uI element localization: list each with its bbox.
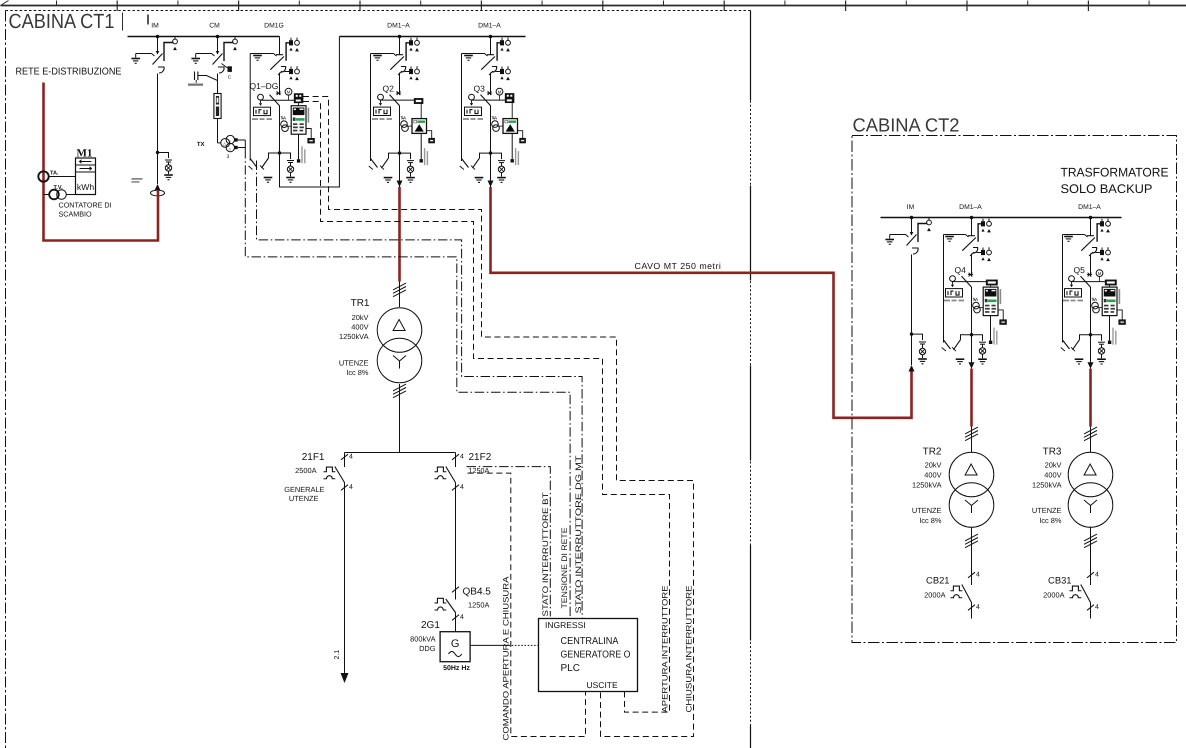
svg-text:CB31: CB31	[1048, 575, 1071, 586]
earthing rail DM1G	[249, 54, 251, 161]
circuit breaker Q4	[944, 265, 1006, 345]
motor operator Q1&#8211;DG	[285, 88, 292, 95]
control unit box CENTRALINA	[539, 619, 638, 692]
lower earthing switches Q1-DG	[260, 151, 295, 182]
svg-text:TA: TA	[492, 116, 498, 121]
svg-text:2000A: 2000A	[924, 591, 945, 600]
CT ring TA	[38, 171, 75, 182]
aux contact boxes Q3	[505, 94, 514, 98]
earthing rail DM1-A Q4	[943, 235, 945, 343]
fuse CM	[214, 94, 221, 119]
toroid wire Q3	[511, 133, 513, 159]
labels TR3	[1032, 447, 1062, 526]
transformer TR1	[377, 308, 422, 383]
bay label IM CT2	[907, 204, 915, 211]
svg-text:CABINA CT1: CABINA CT1	[9, 10, 115, 33]
svg-text:Q3: Q3	[474, 84, 486, 94]
labels CB31	[1043, 575, 1071, 600]
svg-text:4: 4	[1095, 604, 1099, 611]
svg-text:RETE E-DISTRIBUZIONE: RETE E-DISTRIBUZIONE	[16, 67, 122, 78]
svg-text:UTENZE: UTENZE	[339, 359, 369, 368]
LV breaker 21F1	[324, 454, 354, 492]
wire IM drop	[157, 74, 159, 153]
svg-text:M: M	[498, 90, 502, 95]
svg-text:CB21: CB21	[926, 575, 949, 586]
earthing blade DM1G rail	[249, 159, 258, 170]
lower earthing switches Q5	[1071, 333, 1106, 364]
disconnector DM1-A Q3	[462, 37, 511, 162]
earthing rail DM1-A Q2	[370, 54, 372, 162]
toroid wire Q1&#8211;DG	[298, 134, 300, 159]
svg-text:1250kVA: 1250kVA	[912, 481, 942, 490]
arrow Q5 output	[1088, 335, 1094, 369]
svg-text:△: △	[229, 139, 232, 143]
svg-text:1250kVA: 1250kVA	[339, 332, 369, 341]
cable termination IM	[132, 153, 165, 196]
arrow Q3 output	[488, 153, 494, 187]
aux contact boxes Q4	[986, 280, 997, 285]
signal TENSIONE DI RETE	[245, 149, 570, 618]
svg-text:2.1: 2.1	[334, 650, 341, 660]
operating coil Q4	[950, 276, 956, 282]
CT sensor Q4	[973, 302, 980, 309]
svg-text:STATO INTERRUTTORE DG MT: STATO INTERRUTTORE DG MT	[574, 455, 583, 613]
wire CB31 end	[1090, 611, 1092, 619]
svg-text:3: 3	[227, 154, 230, 160]
earthing rail DM1-A Q3	[461, 54, 463, 162]
operating coil Q5	[1069, 276, 1075, 282]
svg-text:PLC: PLC	[561, 663, 580, 674]
bay label DM1-A Q5	[1078, 204, 1101, 211]
toroid wire Q5	[1109, 316, 1111, 341]
toroid box Q5	[1117, 310, 1122, 320]
bay label DM1G	[264, 23, 284, 30]
svg-text:CM: CM	[209, 23, 220, 30]
svg-text:GENERATORE O: GENERATORE O	[561, 650, 631, 661]
wire DM1G drop	[279, 76, 281, 96]
svg-text:Icc 8%: Icc 8%	[1039, 516, 1062, 525]
lamp and earth IM CT2	[912, 334, 927, 364]
toroid box Q1&#8211;DG	[306, 129, 311, 139]
breaker blade Q4	[962, 276, 972, 287]
label CAVO MT 250 metri	[635, 261, 722, 271]
svg-text:Icc 8%: Icc 8%	[919, 516, 942, 525]
svg-text:IM: IM	[907, 204, 915, 211]
svg-text:SCAMBIO: SCAMBIO	[59, 210, 93, 219]
svg-text:50Hz Hz: 50Hz Hz	[443, 665, 470, 672]
disconnector DM1-A Q5	[1063, 218, 1111, 343]
wire breaker Q1&#8211;DG	[261, 99, 295, 101]
protection relay Q1&#8211;DG	[291, 106, 306, 135]
svg-text:TR2: TR2	[923, 447, 942, 458]
svg-text:UTENZE: UTENZE	[912, 506, 942, 515]
wire Q1-DG output U-turn to bus 2	[280, 37, 340, 188]
svg-text:800kVA: 800kVA	[410, 635, 435, 644]
svg-text:1250A: 1250A	[468, 601, 489, 610]
svg-text:Q2: Q2	[383, 84, 395, 94]
svg-text:COMANDO APERTURA E CHIUSURA: COMANDO APERTURA E CHIUSURA	[502, 576, 511, 741]
LV breaker QB4.5	[435, 586, 465, 621]
labels 21F2	[469, 452, 492, 475]
circuit breaker Q2	[372, 84, 434, 166]
circuit breaker Q3	[463, 84, 525, 166]
energy meter M1	[76, 148, 96, 195]
svg-text:CABINA CT2: CABINA CT2	[853, 116, 960, 137]
svg-text:Icc 8%: Icc 8%	[346, 368, 369, 377]
operating coil Q1&#8211;DG	[258, 94, 264, 100]
svg-text:TA: TA	[1092, 297, 1098, 302]
busbar CT1 section 1	[128, 35, 280, 39]
wire Q1-DG to junction	[279, 106, 281, 154]
protection relay Q5	[1102, 287, 1117, 316]
svg-text:TA: TA	[973, 297, 979, 302]
CT sensor Q1&#8211;DG	[281, 121, 288, 128]
wire Q5 drop	[1090, 257, 1092, 277]
earthing blade Q5 rail	[1061, 340, 1070, 351]
LV busbar	[345, 452, 456, 454]
svg-text:20kV: 20kV	[925, 461, 942, 470]
breaker blade Q3	[481, 95, 491, 106]
labels TR1	[339, 298, 370, 377]
arrow Q2 output	[397, 153, 403, 187]
svg-text:T.V.: T.V.	[54, 185, 64, 191]
wire Q3 drop	[490, 76, 492, 96]
label CONTATORE DI SCAMBIO	[59, 201, 112, 219]
wire generator to PLC	[470, 644, 538, 646]
breaker blade Q2	[390, 95, 400, 106]
cable marks TR1 lower + LV feeder	[393, 384, 406, 453]
svg-text:kWh: kWh	[77, 182, 94, 192]
wire 21F1 to sheet 2.1	[334, 491, 349, 684]
svg-text:TA: TA	[281, 116, 287, 121]
cable marks TR3 upper	[1084, 427, 1097, 453]
wire Q2 to junction	[399, 106, 401, 154]
earthing blade Q4 rail	[942, 340, 951, 351]
svg-text:4: 4	[976, 572, 980, 579]
CT sensor Q2	[401, 121, 408, 128]
CABINA CT1 boundary box	[6, 11, 751, 748]
svg-text:20kV: 20kV	[352, 313, 369, 322]
cable marks TR3 lower	[1084, 527, 1097, 573]
wire Q2 drop	[399, 76, 401, 96]
toroid box Q4	[998, 310, 1003, 320]
voltage transformer branch CM	[188, 72, 218, 94]
disconnector DM1G	[250, 37, 299, 161]
svg-text:Q1–DG: Q1–DG	[250, 81, 279, 91]
svg-text:INGRESSI: INGRESSI	[545, 620, 586, 630]
breaker blade Q5	[1081, 276, 1091, 287]
svg-text:Q4: Q4	[955, 265, 967, 275]
lower earthing switches Q3	[471, 151, 506, 182]
protection relay Q3	[503, 119, 518, 134]
arrow Q4 output	[969, 335, 975, 369]
svg-text:DM1–A: DM1–A	[959, 204, 982, 211]
bay label CM	[209, 23, 220, 30]
label RETE E-DISTRIBUZIONE	[16, 67, 122, 78]
svg-text:G: G	[451, 638, 460, 650]
breaker blade Q1&#8211;DG	[270, 95, 280, 106]
wire 21F2 to QB4.5	[455, 491, 457, 587]
sheet top border	[1, 1, 1186, 12]
toroid wire Q2	[420, 133, 422, 159]
labels QB4.5	[463, 587, 492, 610]
wire QB4.5 to generator	[455, 620, 457, 632]
function box ILU Q2	[374, 107, 391, 115]
svg-text:TRASFORMATORE: TRASFORMATORE	[1061, 166, 1169, 180]
wire Q3 to junction	[490, 106, 492, 154]
wire breaker Q2	[381, 99, 415, 101]
earthing blade Q3 rail	[460, 159, 469, 170]
svg-text:IM: IM	[151, 23, 159, 30]
svg-text:4: 4	[460, 484, 464, 491]
measuring transformer TX	[197, 135, 245, 160]
signal STATO INTERRUTTORE BT	[467, 467, 551, 617]
transformer TR2	[949, 452, 994, 527]
wire Q4 to junction	[971, 287, 973, 335]
wire fuse to TX	[217, 119, 219, 143]
disconnector CM	[191, 36, 237, 73]
protection relay Q4	[983, 287, 998, 316]
CT sensor Q5	[1092, 302, 1099, 309]
CABINA CT2 boundary box	[852, 136, 1177, 643]
labels TR2	[912, 447, 942, 526]
function box ILU Q4	[946, 289, 963, 297]
cable RETE E-DISTRIBUZIONE	[44, 83, 159, 241]
operating coil Q3	[469, 94, 475, 100]
disconnector IM CT2	[885, 217, 931, 254]
label 2G1	[410, 620, 440, 653]
svg-text:CENTRALINA: CENTRALINA	[561, 636, 619, 647]
svg-text:4: 4	[1095, 572, 1099, 579]
labels 21F1	[284, 452, 325, 503]
svg-text:4: 4	[460, 454, 464, 461]
disconnector DM1-A Q4	[944, 218, 992, 343]
bay label DM1-A Q4	[959, 204, 982, 211]
cable marks TR2 lower	[965, 527, 978, 573]
svg-text:UTENZE: UTENZE	[289, 494, 319, 503]
earthing blade Q2 rail	[369, 159, 378, 170]
svg-text:TR3: TR3	[1043, 447, 1062, 458]
svg-text:4: 4	[976, 604, 980, 611]
disconnector IM	[131, 36, 177, 73]
bay label DM1-A (Q3)	[478, 23, 501, 30]
signal STATO INTERRUTTORE DG MT	[257, 161, 583, 618]
svg-text:USCITE: USCITE	[587, 680, 619, 690]
svg-text:2000A: 2000A	[1043, 591, 1064, 600]
LV breaker 21F2	[435, 454, 465, 492]
wire 21F1 drop	[344, 453, 346, 455]
svg-text:4: 4	[460, 614, 464, 621]
signal APERTURA INTERRUTTORE	[303, 102, 670, 713]
function box ILU Q3	[465, 107, 482, 115]
svg-text:1250kVA: 1250kVA	[1032, 481, 1062, 490]
aux contact boxes Q5	[1105, 280, 1116, 285]
labels CB21	[924, 575, 949, 600]
svg-text:CAVO MT 250 metri: CAVO MT 250 metri	[635, 261, 722, 271]
svg-text:TX: TX	[197, 141, 205, 148]
LV breaker CB21	[951, 572, 981, 612]
function box ILU Q1&#8211;DG	[254, 107, 271, 115]
svg-text:STATO INTERRUTTORE BT: STATO INTERRUTTORE BT	[541, 492, 550, 616]
circuit breaker Q1&#8211;DG	[250, 81, 315, 163]
wire CB21 end	[971, 611, 973, 619]
svg-text:DM1G: DM1G	[264, 23, 284, 30]
bay label DM1-A (Q2)	[387, 23, 410, 30]
svg-text:4: 4	[349, 484, 353, 491]
svg-text:QB4.5: QB4.5	[463, 587, 492, 598]
lamp and earth IM	[156, 151, 173, 180]
disconnector DM1-A Q2	[371, 37, 420, 162]
svg-text:M: M	[1098, 271, 1102, 276]
svg-text:DM1–A: DM1–A	[387, 23, 410, 30]
svg-text:400V: 400V	[351, 323, 368, 332]
signal CHIUSURA INTERRUTTORE	[303, 97, 694, 737]
bay label IM	[151, 23, 159, 30]
svg-text:400V: 400V	[924, 471, 941, 480]
CT sensor Q3	[492, 121, 499, 128]
label TRASFORMATORE SOLO BACKUP	[1061, 166, 1169, 197]
toroid wire Q4	[990, 316, 992, 341]
motor operator Q3	[496, 88, 503, 95]
function box ILU Q5	[1065, 289, 1082, 297]
busbar CT2	[881, 216, 1122, 220]
cable Q2 to TR1	[398, 187, 401, 282]
circuit breaker Q5	[1063, 265, 1125, 345]
generator 2G1	[440, 632, 470, 672]
svg-text:2G1: 2G1	[421, 620, 440, 631]
svg-text:Q5: Q5	[1074, 265, 1086, 275]
LV breaker CB31	[1070, 572, 1100, 612]
svg-text:APERTURA INTERRUTTORE: APERTURA INTERRUTTORE	[660, 586, 669, 713]
svg-text:TA: TA	[401, 116, 407, 121]
busbar CT1 section 2	[339, 35, 525, 39]
svg-text:UTENZE: UTENZE	[1032, 506, 1062, 515]
wire Q5 to junction	[1090, 287, 1092, 335]
cable marks TR2 upper	[965, 427, 978, 453]
toroid box Q3	[518, 131, 523, 139]
svg-text:TR1: TR1	[351, 298, 370, 309]
svg-text:CONTATORE DI: CONTATORE DI	[59, 201, 112, 210]
svg-text:CHIUSURA INTERRUTTORE: CHIUSURA INTERRUTTORE	[684, 586, 693, 713]
lower earthing switches Q2	[380, 151, 415, 182]
wire breaker Q3	[472, 99, 506, 101]
protection relay Q2	[412, 119, 427, 134]
operating coil Q2	[378, 94, 384, 100]
transformer TR3	[1068, 452, 1113, 527]
svg-text:M: M	[287, 90, 291, 95]
svg-text:SOLO BACKUP: SOLO BACKUP	[1061, 182, 1153, 196]
svg-text:GENERALE: GENERALE	[284, 485, 324, 494]
svg-text:DM1–A: DM1–A	[1078, 204, 1101, 211]
wire 21F2 drop	[455, 453, 457, 455]
signal COMANDO APERTURA E CHIUSURA	[468, 473, 586, 740]
spring charge indicator CM	[222, 64, 232, 80]
cable arrival IM CT2	[909, 334, 915, 371]
svg-text:DM1–A: DM1–A	[478, 23, 501, 30]
cable marks TR1 upper	[393, 282, 406, 308]
VT rings TV	[44, 185, 76, 199]
svg-text:21F1: 21F1	[302, 452, 325, 463]
aux contact boxes Q2	[414, 99, 423, 104]
svg-text:△: △	[229, 147, 232, 151]
bus reference tick	[147, 15, 149, 25]
wire IM CT2 drop	[910, 255, 913, 336]
motor operator Q5	[1096, 270, 1103, 277]
svg-text:TA.: TA.	[50, 171, 59, 177]
svg-text:2500A: 2500A	[295, 466, 316, 475]
earthing rail DM1-A Q5	[1062, 235, 1064, 343]
svg-text:DDG: DDG	[419, 644, 436, 653]
wire Q4 drop	[971, 257, 973, 277]
svg-text:20kV: 20kV	[1045, 461, 1062, 470]
svg-text:400V: 400V	[1044, 471, 1061, 480]
cable Q5 to TR3	[1089, 369, 1092, 427]
lower earthing switches Q4	[952, 333, 987, 364]
wire breaker Q5	[1072, 281, 1106, 283]
cable Q4 to TR2	[970, 369, 973, 427]
svg-text:21F2: 21F2	[469, 452, 492, 463]
toroid box Q2	[427, 131, 432, 139]
aux contact boxes Q1&#8211;DG	[294, 94, 303, 98]
wire breaker Q4	[953, 281, 987, 283]
svg-text:4: 4	[349, 454, 353, 461]
cable CAVO MT to CT2	[491, 187, 912, 418]
svg-text:TENSIONE DI RETE: TENSIONE DI RETE	[560, 528, 569, 609]
